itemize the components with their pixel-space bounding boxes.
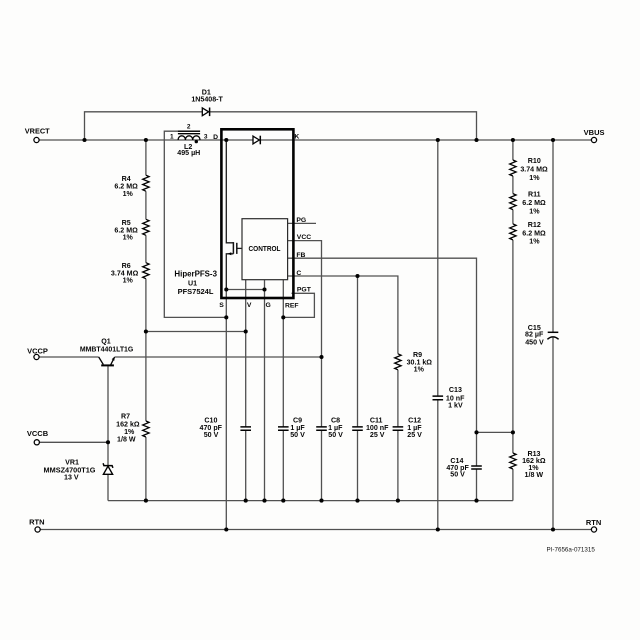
svg-text:2: 2 <box>187 124 191 131</box>
svg-text:R11: R11 <box>528 191 541 199</box>
svg-text:REF: REF <box>285 302 299 309</box>
svg-text:3.74 MΩ: 3.74 MΩ <box>520 166 548 174</box>
svg-text:VCC: VCC <box>297 234 311 241</box>
svg-text:6.2 MΩ: 6.2 MΩ <box>522 229 546 237</box>
svg-text:1/8 W: 1/8 W <box>525 471 544 479</box>
svg-text:R10: R10 <box>528 157 541 165</box>
svg-text:6.2 MΩ: 6.2 MΩ <box>522 199 546 207</box>
svg-text:50 V: 50 V <box>450 470 465 478</box>
svg-text:C: C <box>296 270 301 277</box>
svg-text:G: G <box>266 302 271 309</box>
svg-text:MMBT4401LT1G: MMBT4401LT1G <box>80 347 133 354</box>
svg-text:RTN: RTN <box>586 518 601 527</box>
svg-text:3: 3 <box>204 134 208 141</box>
svg-text:25 V: 25 V <box>370 431 385 439</box>
svg-text:PG: PG <box>296 217 306 224</box>
svg-text:VCCB: VCCB <box>27 429 49 438</box>
svg-text:Q1: Q1 <box>101 337 111 345</box>
svg-text:13 V: 13 V <box>64 474 79 482</box>
svg-text:1%: 1% <box>414 365 425 373</box>
svg-text:25 V: 25 V <box>407 431 422 439</box>
svg-text:50 V: 50 V <box>328 431 343 439</box>
svg-text:50 V: 50 V <box>204 431 219 439</box>
svg-text:V: V <box>247 302 252 309</box>
svg-text:VRECT: VRECT <box>25 127 50 136</box>
svg-text:1N5408-T: 1N5408-T <box>191 95 223 103</box>
svg-text:450 V: 450 V <box>525 339 544 347</box>
svg-text:1%: 1% <box>123 277 134 285</box>
svg-text:R12: R12 <box>528 221 541 229</box>
svg-text:1%: 1% <box>123 234 134 242</box>
svg-text:1 kV: 1 kV <box>448 402 463 410</box>
svg-text:FB: FB <box>296 252 305 259</box>
svg-text:C13: C13 <box>449 386 462 394</box>
svg-text:VCCP: VCCP <box>27 346 48 355</box>
svg-text:S: S <box>219 302 224 309</box>
svg-text:82 µF: 82 µF <box>525 331 544 339</box>
svg-text:D: D <box>213 134 218 141</box>
svg-text:PI-7656a-071315: PI-7656a-071315 <box>547 547 596 554</box>
svg-text:K: K <box>294 134 299 141</box>
svg-text:VBUS: VBUS <box>584 128 605 137</box>
svg-text:PFS7524L: PFS7524L <box>178 287 214 296</box>
svg-text:1%: 1% <box>123 190 134 198</box>
svg-text:1%: 1% <box>529 207 540 215</box>
svg-text:50 V: 50 V <box>290 431 305 439</box>
svg-text:1: 1 <box>170 134 174 141</box>
svg-text:RTN: RTN <box>29 517 44 526</box>
svg-text:1/8 W: 1/8 W <box>117 436 136 444</box>
svg-text:1%: 1% <box>529 238 540 246</box>
svg-text:CONTROL: CONTROL <box>249 244 281 253</box>
svg-text:495 µH: 495 µH <box>177 149 200 157</box>
svg-text:HiperPFS-3: HiperPFS-3 <box>174 270 217 279</box>
svg-text:1%: 1% <box>529 174 540 182</box>
svg-text:PGT: PGT <box>297 287 312 294</box>
